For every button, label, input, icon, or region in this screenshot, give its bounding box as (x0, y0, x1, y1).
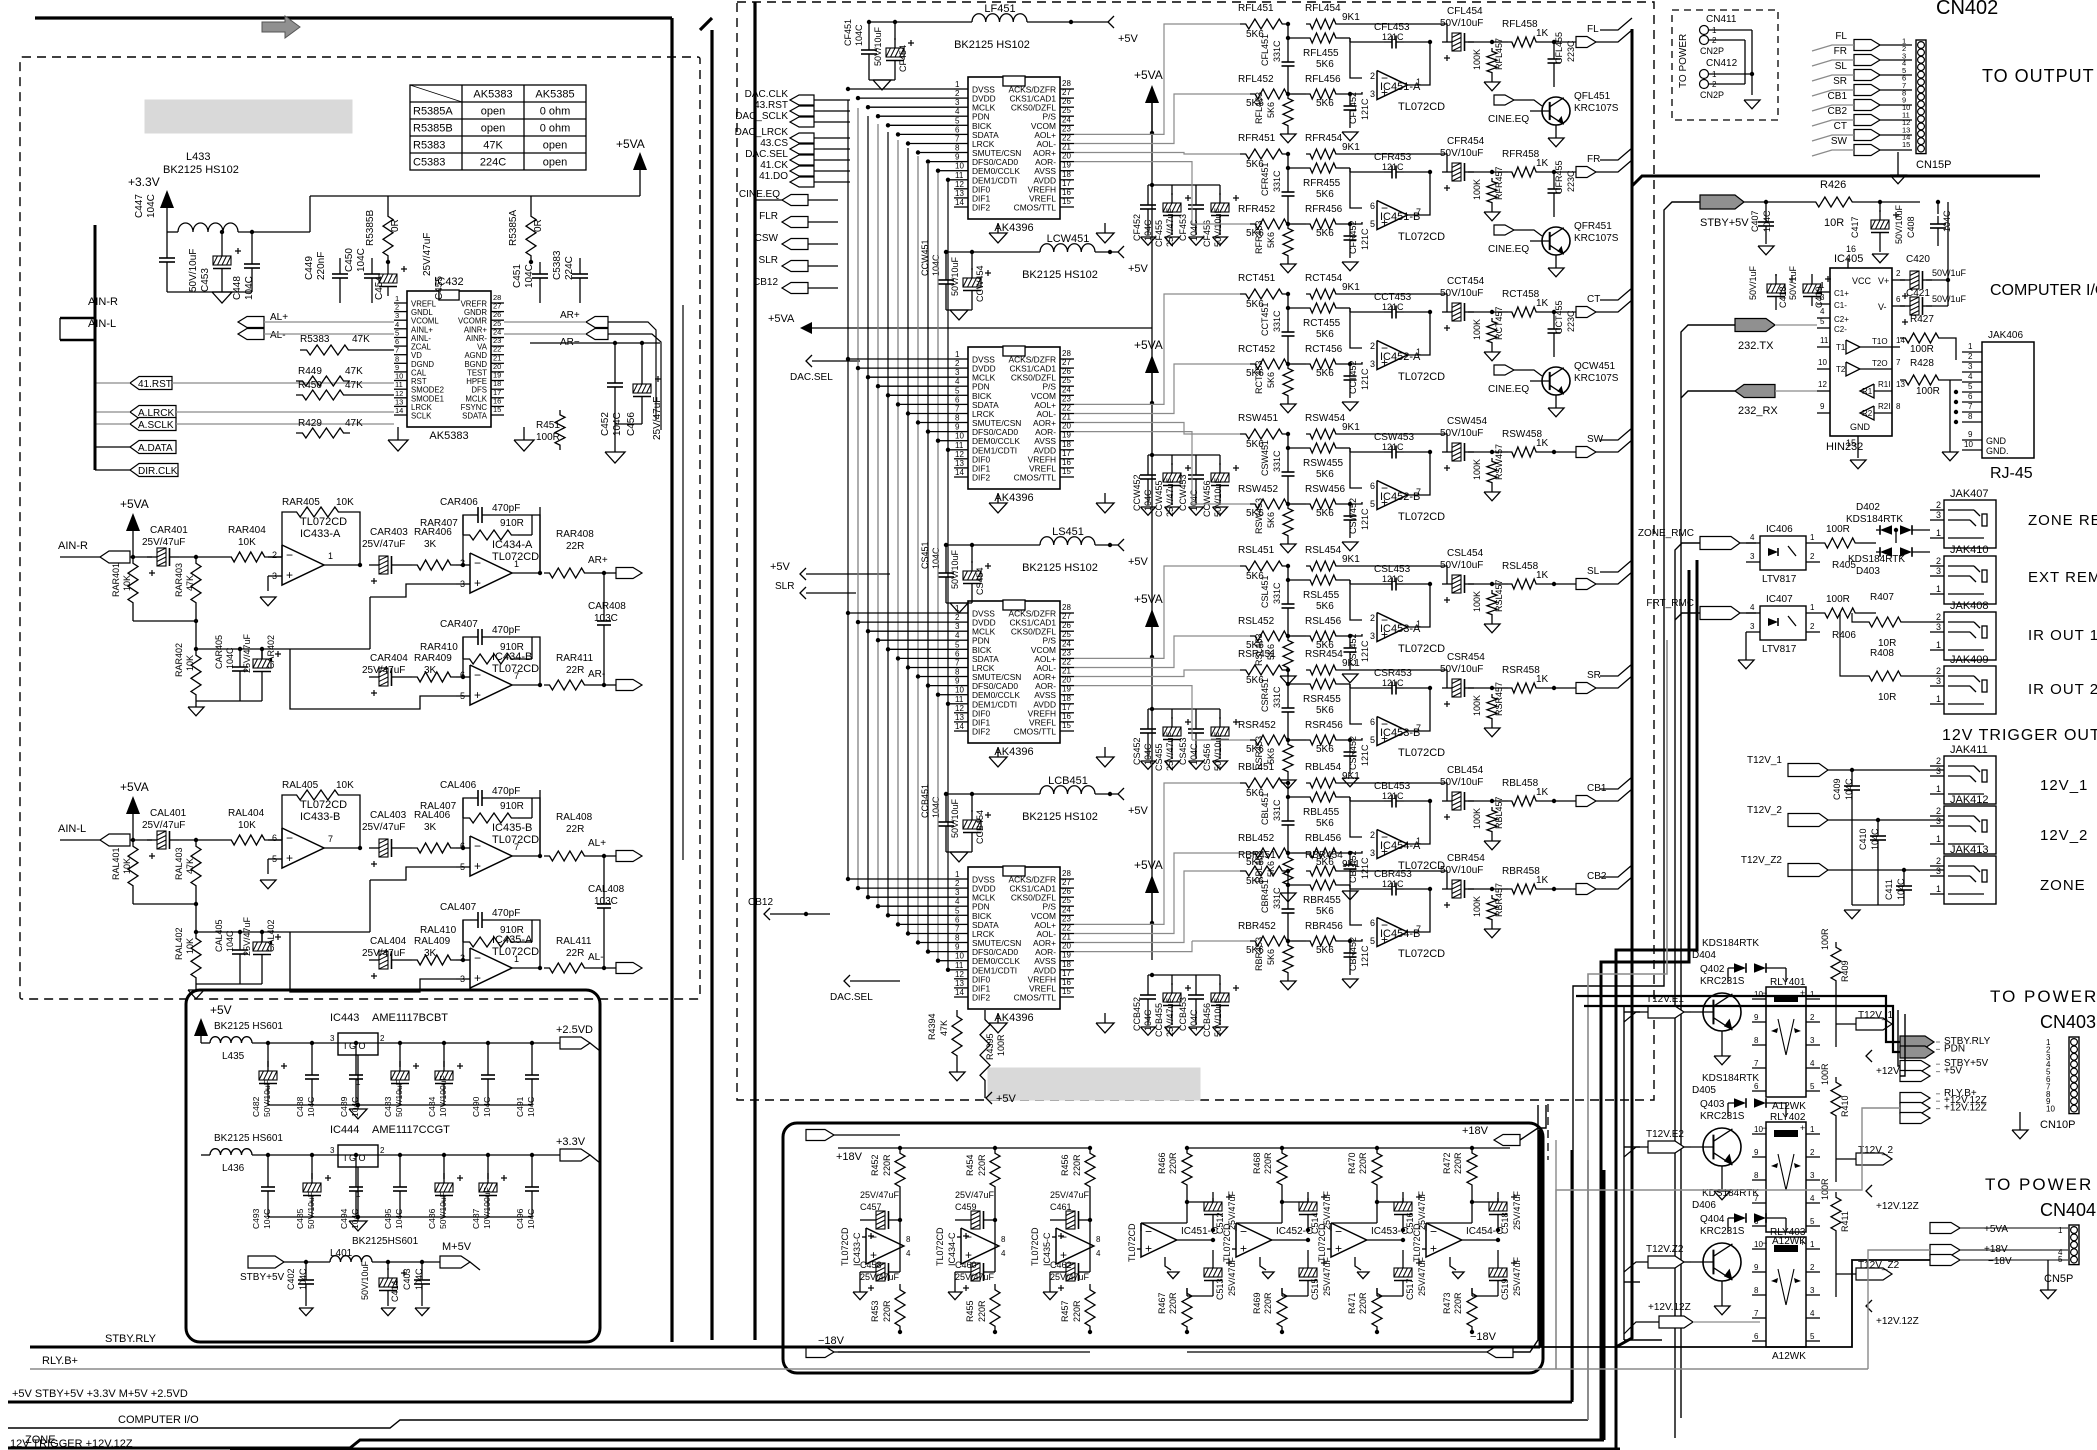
tag +3.3V (556, 1136, 600, 1163)
text CN404 (2040, 1200, 2096, 1220)
svg-text:3: 3 (955, 98, 960, 107)
svg-text:VCC: VCC (1852, 276, 1872, 286)
tag CINE.EQ (739, 189, 838, 206)
svg-text:R456: R456 (1060, 1154, 1070, 1176)
tag STBY+5V (240, 1256, 330, 1283)
svg-text:21: 21 (1062, 933, 1071, 942)
svg-text:STBY.RLY: STBY.RLY (105, 1333, 157, 1345)
tag FL out (1812, 31, 1912, 51)
svg-text:12V TRIGGER +12V.12Z: 12V TRIGGER +12V.12Z (10, 1438, 133, 1450)
resistor RAL405 (282, 780, 360, 846)
svg-text:121C: 121C (1382, 32, 1404, 42)
tag AIN-R (58, 540, 152, 563)
wire riser COMPUTER IO (1681, 325, 1735, 1418)
svg-text:18: 18 (1062, 170, 1071, 179)
svg-text:KDS184RTK: KDS184RTK (1848, 554, 1905, 565)
svg-text:50V/10uF: 50V/10uF (1440, 865, 1483, 876)
svg-text:A.SCLK: A.SCLK (138, 420, 174, 431)
svg-text:CMOS/TTL: CMOS/TTL (1014, 473, 1057, 483)
svg-text:R470: R470 (1347, 1152, 1357, 1174)
wire (1600, 18, 1632, 30)
svg-text:−: − (1762, 1123, 1767, 1133)
svg-text:100R: 100R (996, 1034, 1006, 1056)
svg-text:15: 15 (1062, 467, 1071, 476)
tag +5V (1118, 539, 1149, 568)
capacitor CCB454 (950, 792, 991, 852)
svg-text:6: 6 (460, 670, 465, 680)
svg-text:2: 2 (955, 613, 960, 622)
svg-text:CN15P: CN15P (1916, 159, 1951, 171)
capacitor CF453 (1172, 185, 1204, 245)
wire (1600, 288, 1632, 300)
svg-text:470pF: 470pF (492, 908, 520, 919)
svg-text:7: 7 (955, 405, 960, 414)
svg-text:4: 4 (395, 320, 399, 329)
svg-text:C494: C494 (339, 1208, 349, 1229)
svg-text:27: 27 (1062, 88, 1071, 97)
capacitor C452 (600, 341, 623, 436)
svg-text:AK4396: AK4396 (994, 1012, 1033, 1024)
svg-text:DIF2: DIF2 (972, 993, 990, 1003)
svg-text:25V/47uF: 25V/47uF (1512, 1256, 1522, 1296)
svg-text:3: 3 (1936, 510, 1941, 520)
wire power box (186, 990, 600, 1342)
svg-text:47K: 47K (352, 334, 370, 345)
svg-text:22: 22 (1062, 924, 1071, 933)
wire (133, 904, 198, 934)
tag CB1 out (1812, 91, 1912, 111)
resistor RAL402 (174, 927, 201, 984)
svg-text:SL: SL (1587, 566, 1600, 577)
power +5V feed (770, 561, 890, 580)
svg-text:3K: 3K (424, 822, 437, 833)
svg-text:C447: C447 (134, 194, 145, 218)
svg-text:3: 3 (955, 622, 960, 631)
svg-text:KRC231S: KRC231S (1700, 976, 1745, 987)
svg-text:22R: 22R (566, 541, 584, 552)
inductor LF451 (954, 3, 1108, 51)
resistor RAL407 (420, 798, 532, 823)
svg-text:50V/10uF: 50V/10uF (188, 249, 199, 292)
svg-text:CAL401: CAL401 (150, 808, 187, 819)
capacitor CCB455 (1148, 973, 1191, 1037)
svg-text:C419: C419 (1814, 286, 1824, 308)
svg-text:IC444: IC444 (330, 1124, 359, 1136)
svg-text:QCW451: QCW451 (1574, 361, 1616, 372)
resistor RAR411 (544, 653, 606, 690)
svg-text:BK2125 HS102: BK2125 HS102 (1022, 269, 1098, 281)
svg-text:open: open (543, 140, 567, 152)
svg-text:8: 8 (955, 414, 960, 423)
svg-text:+: + (1240, 1242, 1247, 1256)
svg-text:4: 4 (1750, 533, 1755, 542)
resistor R456 220R (1060, 1146, 1095, 1220)
text CN403 (2040, 1012, 2096, 1032)
svg-text:6: 6 (272, 833, 277, 843)
svg-text:8: 8 (955, 668, 960, 677)
svg-text:6: 6 (1896, 295, 1901, 304)
resistor RAR410 (420, 637, 532, 664)
svg-text:RLY402: RLY402 (1770, 1112, 1806, 1123)
svg-text:20: 20 (1062, 942, 1071, 951)
resistor R428 (1900, 358, 1962, 397)
svg-text:CFR454: CFR454 (1447, 136, 1485, 147)
svg-text:3: 3 (1936, 866, 1941, 876)
svg-text:CAR401: CAR401 (150, 525, 188, 536)
filter channel SL (1192, 545, 1632, 685)
svg-text:224C: 224C (564, 256, 575, 280)
svg-text:100K: 100K (1472, 808, 1482, 829)
svg-text:220R: 220R (1263, 1152, 1273, 1174)
svg-text:+: + (1145, 1242, 1152, 1256)
svg-text:CB2: CB2 (1828, 106, 1848, 117)
svg-text:C1-: C1- (1834, 301, 1847, 310)
svg-text:R453: R453 (870, 1300, 880, 1322)
svg-text:+5V: +5V (1128, 556, 1149, 568)
ground (1096, 223, 1114, 243)
svg-text:C1+: C1+ (1834, 289, 1849, 298)
svg-text:R4395: R4395 (985, 1033, 995, 1060)
capacitor CAL401 (142, 808, 226, 859)
svg-text:1: 1 (514, 559, 519, 569)
svg-text:2: 2 (380, 1146, 385, 1155)
svg-text:L433: L433 (186, 151, 210, 163)
svg-text:3: 3 (1810, 1171, 1815, 1180)
capacitor CF452 (1132, 185, 1156, 245)
svg-text:2: 2 (1370, 613, 1375, 623)
svg-text:43.RST: 43.RST (754, 100, 788, 111)
svg-text:+3.3V: +3.3V (128, 175, 160, 189)
wire rails right (1187, 1148, 1510, 1352)
svg-text:23: 23 (1062, 648, 1071, 657)
svg-text:Q404: Q404 (1700, 1214, 1725, 1225)
capacitor CAR404 (362, 653, 412, 696)
svg-text:5K6: 5K6 (1266, 232, 1276, 248)
svg-text:50V/10uF: 50V/10uF (950, 256, 960, 296)
svg-text:25V/47uF: 25V/47uF (955, 1190, 995, 1200)
svg-text:COMPUTER I/O: COMPUTER I/O (118, 1414, 199, 1426)
capacitor CAR407 (440, 619, 540, 685)
svg-text:3: 3 (1936, 766, 1941, 776)
svg-text:C408: C408 (1906, 216, 1916, 238)
tag +12V.12Z (1866, 1050, 1919, 1077)
wire (1744, 30, 1760, 109)
svg-text:25V/47uF: 25V/47uF (1165, 731, 1175, 771)
svg-text:15: 15 (1902, 140, 1910, 149)
capacitor CAR401 (142, 525, 226, 576)
svg-text:5: 5 (955, 640, 960, 649)
svg-text:RSL458: RSL458 (1502, 561, 1539, 572)
wire dac4 to filters (1074, 783, 1192, 952)
svg-text:220R: 220R (882, 1300, 892, 1322)
svg-text:100K: 100K (1472, 459, 1482, 480)
wire riser ZONE (1675, 543, 1700, 1438)
svg-text:2: 2 (955, 89, 960, 98)
resistor R4394 (927, 1010, 965, 1081)
svg-text:JAK406: JAK406 (1988, 330, 2023, 341)
svg-text:9: 9 (1754, 1263, 1759, 1272)
svg-text:2: 2 (460, 558, 465, 568)
op-amp U IC405 HIN232 (1817, 244, 1905, 469)
svg-text:4: 4 (1810, 1309, 1815, 1318)
svg-text:25: 25 (1062, 896, 1071, 905)
svg-text:CCW456: CCW456 (1202, 480, 1212, 517)
svg-text:−18V: −18V (818, 1335, 845, 1347)
svg-text:FR: FR (1834, 46, 1847, 57)
wire trunk left (700, 2, 755, 1340)
resistor R429 (296, 418, 363, 438)
svg-text:11: 11 (955, 961, 964, 970)
svg-text:IC407: IC407 (1766, 594, 1793, 605)
svg-text:9: 9 (1820, 402, 1825, 411)
svg-text:RSR456: RSR456 (1305, 720, 1343, 731)
tag AIN-L (60, 318, 116, 340)
svg-text:27: 27 (1062, 358, 1071, 367)
ground (989, 493, 1007, 513)
svg-text:C493: C493 (251, 1208, 261, 1229)
svg-text:AL+: AL+ (588, 838, 606, 849)
svg-text:25V/47uF: 25V/47uF (242, 633, 252, 673)
svg-text:16: 16 (1062, 978, 1071, 987)
svg-text:R1I: R1I (1878, 380, 1890, 389)
svg-text:121C: 121C (1382, 302, 1404, 312)
svg-text:AK5383: AK5383 (473, 89, 512, 101)
svg-text:50V/10uF: 50V/10uF (1213, 731, 1223, 771)
svg-text:2: 2 (955, 359, 960, 368)
svg-text:223C: 223C (1566, 40, 1576, 62)
resistor R426 (1810, 179, 1920, 229)
svg-text:19: 19 (493, 371, 501, 380)
power +5V (194, 1003, 232, 1043)
tag T12V_Z2 (1836, 1260, 1900, 1280)
svg-text:5K6: 5K6 (1316, 705, 1334, 716)
svg-text:6: 6 (955, 915, 960, 924)
svg-text:232_RX: 232_RX (1738, 405, 1778, 417)
svg-text:IC454-C: IC454-C (1466, 1226, 1503, 1237)
svg-text:27: 27 (1062, 612, 1071, 621)
svg-text:TL072CD: TL072CD (1398, 747, 1445, 759)
svg-text:C487: C487 (471, 1208, 481, 1229)
svg-text:121C: 121C (1382, 442, 1404, 452)
svg-text:41.RST: 41.RST (138, 379, 172, 390)
svg-text:5K6: 5K6 (1316, 98, 1334, 109)
svg-text:RSL455: RSL455 (1303, 590, 1340, 601)
svg-text:3: 3 (1370, 848, 1375, 858)
op-amp IC434-A TL072CD (370, 539, 542, 597)
inductor LCB451 (1022, 775, 1118, 823)
capacitor CCW455 (1148, 453, 1191, 517)
svg-text:C462: C462 (1050, 1260, 1072, 1270)
svg-text:50V/10uF: 50V/10uF (1213, 477, 1223, 517)
resistor R469 220R (1252, 1240, 1287, 1334)
svg-text:3K: 3K (424, 948, 437, 959)
svg-text:KRC231S: KRC231S (1700, 1111, 1745, 1122)
svg-text:5K6: 5K6 (1316, 818, 1334, 829)
wire 3.3v rail (310, 196, 640, 232)
svg-text:IC434-B: IC434-B (492, 651, 532, 663)
svg-text:RCT455: RCT455 (1303, 318, 1341, 329)
svg-text:V+: V+ (1878, 276, 1889, 286)
capacitor CCW451 (920, 239, 1040, 310)
svg-text:C451: C451 (512, 264, 523, 288)
resistor R470 220R (1347, 1146, 1382, 1223)
svg-text:Q403: Q403 (1700, 1099, 1725, 1110)
svg-text:8: 8 (1001, 1235, 1006, 1244)
svg-text:10: 10 (1818, 358, 1827, 367)
op-amp IC452 TL072CD (1222, 1223, 1313, 1279)
svg-text:+: + (1335, 1242, 1342, 1256)
svg-text:C452: C452 (600, 412, 611, 436)
svg-text:QFL451: QFL451 (1574, 91, 1611, 102)
svg-text:IC434-A: IC434-A (492, 539, 533, 551)
svg-text:15: 15 (493, 405, 501, 414)
filter channel SW (1192, 413, 1632, 553)
svg-text:V-: V- (1878, 302, 1887, 312)
svg-text:AK4396: AK4396 (994, 492, 1033, 504)
svg-text:R467: R467 (1157, 1292, 1167, 1314)
svg-text:C5383: C5383 (413, 157, 445, 169)
capacitor C454 (374, 264, 407, 300)
svg-text:331C: 331C (1272, 799, 1282, 821)
tag AR- (588, 669, 642, 691)
wire riser STBY (1573, 202, 1700, 1400)
svg-text:CN10P: CN10P (2040, 1119, 2075, 1131)
wire (290, 880, 370, 992)
svg-text:47K: 47K (483, 140, 503, 152)
tag +18V L (806, 1130, 900, 1164)
svg-text:R4394: R4394 (927, 1013, 937, 1040)
resistor R410 100R (1820, 1063, 1850, 1182)
svg-text:26: 26 (1062, 97, 1071, 106)
capacitor CAL408 (588, 856, 625, 968)
svg-text:GND: GND (1850, 422, 1871, 432)
capacitor C462 (1050, 1260, 1090, 1291)
svg-text:C485: C485 (295, 1208, 305, 1229)
svg-text:TL072CD: TL072CD (1398, 371, 1445, 383)
svg-text:100K: 100K (1472, 319, 1482, 340)
svg-text:+: + (286, 568, 293, 582)
wire staircase CN404 b (1556, 1250, 1930, 1369)
svg-text:25V/47uF: 25V/47uF (1512, 1190, 1522, 1230)
svg-text:13: 13 (955, 979, 964, 988)
svg-text:−: − (286, 831, 293, 845)
svg-text:RFR453: RFR453 (1254, 220, 1264, 254)
inductor LCW451 (1022, 233, 1118, 281)
svg-text:25: 25 (1062, 106, 1071, 115)
svg-text:25V/47uF: 25V/47uF (1050, 1190, 1090, 1200)
svg-text:47K: 47K (345, 380, 363, 391)
svg-text:5: 5 (955, 386, 960, 395)
svg-text:5K6: 5K6 (1266, 372, 1276, 388)
svg-text:23: 23 (1062, 914, 1071, 923)
tag T12V_Z2 (1741, 855, 1944, 877)
resistor R467 220R (1157, 1240, 1192, 1334)
svg-text:2: 2 (1936, 756, 1941, 766)
filter channel CB2 (1192, 850, 1632, 990)
svg-text:−: − (474, 839, 481, 853)
svg-text:100R: 100R (1820, 1178, 1830, 1200)
gray arrow marker (262, 16, 300, 38)
svg-text:7: 7 (514, 671, 519, 681)
svg-text:25V/47uF: 25V/47uF (422, 233, 433, 276)
svg-text:121C: 121C (1360, 945, 1370, 967)
svg-text:RAL407: RAL407 (420, 801, 457, 812)
resistor R411 100R (1820, 1178, 1850, 1297)
svg-text:TO OUTPUT: TO OUTPUT (1982, 66, 2095, 86)
svg-text:100K: 100K (1472, 695, 1482, 716)
svg-text:7: 7 (955, 659, 960, 668)
svg-text:CMOS/TTL: CMOS/TTL (1014, 993, 1057, 1003)
svg-text:IC453-A: IC453-A (1380, 623, 1421, 635)
svg-text:R406: R406 (1832, 630, 1856, 641)
svg-text:11: 11 (955, 695, 964, 704)
svg-text:CMOS/TTL: CMOS/TTL (1014, 203, 1057, 213)
svg-text:SW: SW (1831, 136, 1848, 147)
svg-text:+5V STBY+5V +3.3V M+5V +2.5VD: +5V STBY+5V +3.3V M+5V +2.5VD (12, 1388, 188, 1400)
svg-text:5: 5 (1370, 735, 1375, 745)
power +5VA (120, 780, 149, 842)
svg-text:10: 10 (955, 432, 964, 441)
capacitor C409 (1832, 770, 1860, 905)
svg-text:RAR404: RAR404 (228, 525, 266, 536)
svg-text:CAR403: CAR403 (370, 527, 408, 538)
svg-text:TL072CD: TL072CD (1222, 1223, 1232, 1262)
svg-text:121C: 121C (1360, 640, 1370, 662)
inductor L433 (163, 151, 310, 234)
svg-text:220R: 220R (977, 1154, 987, 1176)
capacitor C402 (286, 1260, 314, 1316)
svg-text:TL072CD: TL072CD (1030, 1227, 1040, 1266)
svg-text:41.CK: 41.CK (760, 160, 788, 171)
svg-text:TL072CD: TL072CD (1127, 1223, 1137, 1262)
svg-text:TL072CD: TL072CD (1398, 948, 1445, 960)
svg-text:104C: 104C (526, 1209, 536, 1229)
svg-text:BK2125 HS102: BK2125 HS102 (1022, 811, 1098, 823)
op-amp IC434-B TL072CD (370, 651, 542, 709)
svg-text:R409: R409 (1840, 960, 1850, 982)
svg-text:R469: R469 (1252, 1292, 1262, 1314)
svg-text:12: 12 (955, 704, 964, 713)
svg-text:9: 9 (1754, 1148, 1759, 1157)
svg-text:RFL456: RFL456 (1305, 74, 1341, 85)
resistor RAR408 (540, 507, 606, 578)
svg-text:9K1: 9K1 (1342, 282, 1360, 293)
connector JAK407 (1930, 488, 2097, 548)
svg-text:331C: 331C (1272, 170, 1282, 192)
tag DAC_LRCK (735, 127, 850, 143)
svg-text:RAL401: RAL401 (111, 847, 121, 880)
svg-text:28: 28 (1062, 603, 1071, 612)
svg-text:R473: R473 (1442, 1292, 1452, 1314)
svg-text:470pF: 470pF (492, 503, 520, 514)
svg-text:1K: 1K (1536, 787, 1549, 798)
svg-text:RCT453: RCT453 (1254, 360, 1264, 394)
svg-text:103C: 103C (594, 613, 618, 624)
svg-text:AINR+: AINR+ (464, 325, 488, 334)
svg-text:220nF: 220nF (316, 252, 327, 280)
svg-text:50V/10uF: 50V/10uF (1440, 664, 1483, 675)
svg-text:470pF: 470pF (492, 625, 520, 636)
svg-text:A.DATA: A.DATA (138, 443, 173, 454)
svg-text:IC433-A: IC433-A (300, 528, 341, 540)
svg-text:C482: C482 (251, 1096, 261, 1117)
svg-text:R452: R452 (870, 1154, 880, 1176)
svg-text:4: 4 (1096, 1249, 1101, 1258)
svg-text:50V/10uF: 50V/10uF (950, 549, 960, 589)
capacitor CAL404 (362, 936, 412, 979)
svg-text:9K1: 9K1 (1342, 658, 1360, 669)
svg-text:TL072CD: TL072CD (1398, 231, 1445, 243)
